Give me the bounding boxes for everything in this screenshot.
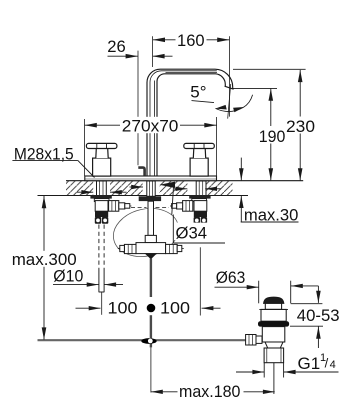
left locknut bbox=[90, 195, 111, 199]
svg-text:5°: 5° bbox=[190, 83, 206, 102]
body taper bbox=[265, 342, 283, 348]
extension line outlet centre bbox=[229, 36, 231, 116]
middle shank in counter hole bbox=[147, 181, 155, 196]
extension line plate left bbox=[84, 119, 86, 176]
middle locknut bbox=[139, 196, 161, 201]
svg-text:26: 26 bbox=[107, 37, 126, 56]
extension line outlet (190 ref) bbox=[233, 87, 278, 89]
svg-text:40-53: 40-53 bbox=[297, 306, 340, 325]
svg-text:100: 100 bbox=[108, 299, 138, 318]
dimension 100 100 bbox=[76, 306, 221, 310]
left valve body bbox=[95, 201, 131, 212]
dimension Ø63 bbox=[215, 281, 319, 304]
extension line faucet centre bottom bbox=[150, 347, 152, 392]
tail pipe lower edges bbox=[264, 363, 283, 394]
dimension 270x70 bbox=[85, 123, 217, 128]
dimension max.180 bbox=[151, 390, 275, 394]
dimension G1 1/4 bbox=[236, 370, 339, 374]
middle down pipe bbox=[118, 201, 184, 258]
extension line for 26 bbox=[137, 51, 139, 166]
rod centre dot (100|100) bbox=[147, 304, 156, 313]
pop-up rod vertical bbox=[150, 258, 152, 297]
dimension max.300 bbox=[42, 196, 47, 340]
rod joint bbox=[141, 338, 156, 344]
right hose coupling block bbox=[194, 211, 207, 224]
dimension Ø10 bbox=[53, 282, 123, 286]
rubber seal ring bbox=[258, 321, 289, 326]
svg-text:/: / bbox=[325, 356, 329, 371]
extension stub left tube bbox=[101, 292, 103, 315]
Ø34 hole arrows bbox=[77, 182, 221, 195]
left shank in counter hole bbox=[97, 181, 107, 196]
left handle H1 bbox=[86, 143, 117, 176]
svg-text:160: 160 bbox=[177, 31, 205, 50]
svg-text:Ø10: Ø10 bbox=[53, 267, 83, 286]
countertop bottom surface line bbox=[38, 195, 249, 197]
waste body bbox=[262, 327, 285, 342]
svg-text:270x70: 270x70 bbox=[122, 116, 179, 135]
dimension 190 bbox=[269, 89, 274, 181]
5 deg leader line bbox=[192, 101, 215, 103]
svg-text:4: 4 bbox=[330, 359, 336, 371]
grouping ellipse around centre assembly bbox=[109, 202, 184, 263]
escutcheon plate 270x70 bbox=[85, 176, 217, 181]
dimension 26 bbox=[108, 54, 173, 59]
pop-up knob bbox=[264, 297, 284, 303]
right locknut bbox=[189, 195, 210, 199]
left flexible hoses (dashed) bbox=[99, 225, 104, 269]
svg-text:max.30: max.30 bbox=[244, 206, 299, 225]
countertop top surface line bbox=[66, 180, 303, 182]
extension line right supply bbox=[199, 247, 201, 315]
extension line spout top (230 ref) bbox=[233, 68, 306, 70]
horizontal linkage rod bbox=[38, 339, 247, 341]
right handle H2 bbox=[184, 143, 215, 176]
svg-text:Ø63: Ø63 bbox=[216, 268, 246, 287]
svg-text:190: 190 bbox=[259, 127, 286, 146]
left hose coupling block bbox=[95, 211, 109, 224]
svg-text:max.180: max.180 bbox=[179, 382, 240, 401]
side port hex bbox=[246, 335, 256, 346]
svg-text:230: 230 bbox=[286, 117, 315, 136]
knob neck bbox=[265, 303, 281, 309]
tail pipe bbox=[264, 348, 284, 363]
dashed centreline between valves bbox=[131, 207, 169, 209]
extension line spout centre bbox=[152, 36, 154, 67]
spout outlet tilted end bbox=[225, 86, 234, 89]
drain waste assembly bbox=[246, 297, 290, 363]
spout elbow hook (26 offset) bbox=[138, 168, 144, 176]
dimension max.30 bbox=[239, 158, 299, 222]
countertop hatched section bbox=[66, 181, 233, 196]
extension line plate right bbox=[216, 117, 218, 176]
upper cylinder bbox=[261, 309, 286, 321]
Ø34 label with box bbox=[172, 187, 225, 244]
dimension 160 bbox=[153, 38, 230, 43]
left supply tube Ø10 bbox=[99, 269, 104, 293]
dimension 230 bbox=[298, 70, 303, 180]
dimension 40-53 bbox=[290, 286, 323, 348]
spout pipe bbox=[147, 69, 234, 176]
right valve body bbox=[170, 201, 207, 212]
svg-text:100: 100 bbox=[160, 299, 190, 318]
svg-text:G1: G1 bbox=[298, 354, 321, 373]
5 degree arc bbox=[192, 84, 253, 119]
tilted outlet axis bbox=[228, 84, 231, 119]
svg-text:Ø34: Ø34 bbox=[176, 224, 208, 243]
right shank in counter hole bbox=[196, 181, 206, 196]
